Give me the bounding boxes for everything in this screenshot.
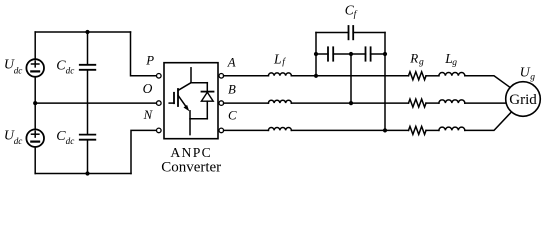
wire phase A continue: [291, 75, 408, 77]
capacitor Cf mid-left: [328, 47, 333, 60]
diode D1: [206, 83, 208, 92]
wire Cdc1 bottom to Cdc2 top (crosses O line): [87, 71, 89, 134]
node Cf mid-left: [314, 52, 318, 56]
terminal N: [157, 128, 162, 133]
capacitor Cdc2: [80, 135, 96, 140]
emitter diagonal: [178, 96, 186, 107]
svg-text:N: N: [143, 108, 154, 122]
collector lead: [190, 68, 192, 83]
inductor Lg-A: [439, 73, 465, 76]
svg-text:R: R: [409, 51, 418, 66]
gate stub: [169, 102, 174, 104]
wire A to grid: [465, 76, 510, 88]
wire Cf right vertical: [384, 33, 386, 131]
wire Cf left vertical: [315, 33, 317, 76]
svg-text:B: B: [228, 83, 236, 97]
wire collector to diode top: [191, 82, 207, 84]
wire N branch: [131, 130, 156, 173]
node bottom rail / Cdc tap: [85, 171, 89, 175]
capacitor Cf top: [349, 26, 354, 39]
node Cf on phase A: [314, 74, 318, 78]
svg-text:L: L: [273, 51, 282, 66]
svg-text:Converter: Converter: [161, 160, 221, 176]
terminal O: [157, 101, 162, 106]
svg-text:C: C: [228, 108, 237, 122]
terminal P: [157, 74, 162, 79]
resistor Rg-C: [409, 126, 427, 134]
wire Cdc1 top lead: [87, 32, 89, 64]
svg-text:dc: dc: [14, 65, 23, 75]
wire A to Lg: [426, 75, 439, 77]
wire B to Lg: [426, 102, 439, 104]
terminal C: [219, 128, 224, 133]
wire phase B: [224, 102, 269, 104]
wire mid node down to Udc2 top: [34, 103, 36, 129]
svg-text:f: f: [354, 9, 358, 20]
svg-text:Grid: Grid: [509, 92, 537, 108]
wire top dc rail: [35, 31, 130, 33]
svg-text:g: g: [530, 73, 535, 83]
terminal A: [219, 74, 224, 79]
wire C to grid: [465, 113, 511, 131]
terminal B: [219, 101, 224, 106]
capacitor Cdc1: [80, 65, 96, 70]
node Cf on phase C: [383, 128, 387, 132]
grid circle Ug: [506, 82, 541, 117]
node Cf on phase B: [349, 101, 353, 105]
inductor Lf-C: [268, 128, 291, 131]
svg-text:g: g: [452, 58, 457, 68]
svg-text:P: P: [145, 53, 154, 67]
inductor Lg-C: [439, 127, 465, 130]
node top rail / Cdc tap: [85, 30, 89, 34]
node Cf mid-center: [349, 52, 353, 56]
wire C to Lg: [426, 129, 439, 131]
wire P branch: [131, 32, 157, 76]
wire Udc1 bottom to mid node: [34, 77, 36, 103]
svg-text:g: g: [419, 58, 424, 68]
emitter vertical: [189, 111, 191, 135]
wire left vertical upper (to Udc1 top): [34, 32, 36, 59]
inductor Lf-B: [268, 100, 291, 103]
wire Cf mid bus: [316, 53, 328, 55]
svg-text:dc: dc: [66, 65, 75, 75]
emitter arrowhead: [184, 105, 190, 111]
wire phase B continue: [291, 102, 408, 104]
capacitor Cf mid-right: [366, 47, 371, 60]
wire Cf top bus right: [353, 32, 385, 34]
inductor Lf-A: [268, 73, 291, 76]
wire Cdc2 bottom lead: [87, 141, 89, 174]
resistor Rg-B: [409, 99, 427, 107]
wire phase C: [224, 129, 269, 131]
node Cf mid-right: [383, 52, 387, 56]
wire emitter to diode bottom: [190, 118, 207, 120]
svg-text:f: f: [282, 57, 286, 68]
svg-text:U: U: [520, 66, 531, 81]
wire Cf top bus left: [316, 32, 349, 34]
svg-text:A: A: [227, 56, 236, 70]
wire Udc2 bottom to bottom rail: [34, 147, 36, 174]
inductor Lg-B: [439, 100, 465, 103]
wire bottom dc rail: [35, 173, 131, 175]
wire mid bus right segment: [371, 53, 385, 55]
voltage source Udc2: [26, 129, 44, 147]
svg-text:ANPC: ANPC: [170, 145, 212, 160]
IGBT body bar: [177, 89, 179, 106]
voltage source Udc1: [26, 59, 44, 77]
svg-text:dc: dc: [66, 136, 75, 146]
wire mid bus segment: [333, 53, 365, 55]
svg-text:dc: dc: [14, 136, 23, 146]
gate bar: [173, 93, 175, 103]
wire Cf center tap to phase B: [350, 54, 352, 103]
wire phase A: [224, 75, 269, 77]
transistor Q1 (IGBT): [169, 68, 191, 135]
node mid-left junction: [33, 101, 37, 105]
resistor Rg-A: [409, 72, 427, 80]
svg-text:O: O: [143, 81, 153, 96]
collector diagonal: [178, 83, 191, 91]
wire O line: [35, 102, 156, 104]
wire phase C continue: [291, 129, 408, 131]
wire B to grid: [465, 102, 506, 104]
ANPC converter box: [164, 63, 218, 139]
